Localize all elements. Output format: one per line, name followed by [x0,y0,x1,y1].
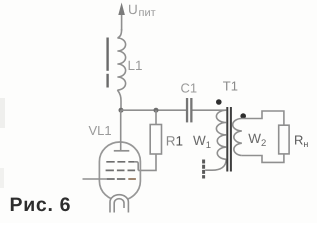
svg-text:пит: пит [139,7,156,19]
transformer T1 secondary W2 [233,119,242,156]
capacitor C1 plates [186,98,193,122]
cathode heater inner arch [114,199,124,213]
load resistor Rn [279,125,289,154]
grid g1 dashes [106,178,125,180]
node junction dot 2 [154,108,159,113]
inductor L1 coil [117,38,125,90]
chassis ground bar [202,160,205,179]
wire L1 bottom to node [117,90,121,110]
grid g1 lead left [83,178,107,180]
wire W1 bottom to chassis [205,159,226,170]
wire W2 top to Rn [242,111,284,125]
label Uпит [128,2,156,19]
svg-text:Рис. 6: Рис. 6 [10,194,72,216]
transformer T1 primary W1 [216,110,226,159]
resistor R1 [150,125,161,155]
svg-text:C1: C1 [181,81,198,96]
wire Rn bottom to W2 bottom [242,154,284,163]
grid g2 dashes [106,169,136,171]
polarity dot W2 [240,113,246,119]
inductor L1 core bar [106,38,108,88]
svg-text:R1: R1 [166,134,183,149]
grid g3 dashes [106,161,134,163]
tube VL1 envelope [99,142,140,201]
anode lead wire [120,110,122,151]
polarity dot W1 [216,99,222,105]
wire main horizontal [121,109,186,111]
svg-text:T1: T1 [223,79,238,94]
grid g3 corner to exit [134,162,138,171]
svg-text:W1: W1 [193,133,211,151]
svg-text:U: U [128,2,138,17]
svg-text:VL1: VL1 [89,123,112,138]
anode plate [114,150,130,152]
svg-text:L1: L1 [128,58,143,73]
svg-text:Rн: Rн [294,133,308,150]
wire R1 bottom to grid line [138,154,156,170]
node junction dot 1 [119,108,124,113]
wire C1 to W1 top [193,109,227,111]
wire node2 to R1 top [155,110,157,124]
cathode heater outer arch [110,195,128,213]
supply arrow Uпит [118,3,125,39]
svg-text:W2: W2 [248,131,266,149]
cathode heater mask [110,194,128,212]
transformer T1 core [227,107,231,172]
